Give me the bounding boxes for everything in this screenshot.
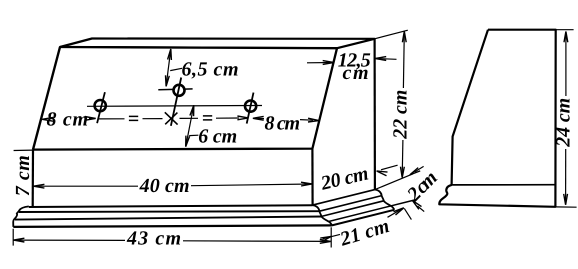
svg-text:22 cm: 22 cm (390, 90, 412, 140)
leader 6 cm (189, 134, 198, 136)
svg-text:43 cm: 43 cm (126, 228, 181, 250)
back moulding ogee profile (375, 190, 394, 210)
svg-text:8 cm: 8 cm (47, 109, 89, 131)
left moulding ogee profile (13, 206, 29, 227)
extension line top for 22 cm (375, 30, 408, 39)
svg-text:=: = (202, 108, 213, 130)
svg-text:6,5 cm: 6,5 cm (182, 59, 239, 81)
extension line for 7 cm (14, 149, 33, 151)
hole phi right (245, 101, 256, 112)
dimension 20 cm (381, 165, 398, 170)
dimension 2 cm arrows (415, 166, 424, 172)
back-right vertical edge (374, 39, 376, 190)
right front moulding ogee profile (313, 205, 332, 225)
side view outline (439, 30, 555, 207)
svg-text:cm: cm (343, 62, 369, 84)
dimension 8 cm left (42, 117, 53, 121)
leader 6,5 cm (170, 68, 182, 70)
front slanted face of block (33, 47, 337, 150)
svg-text:40 cm: 40 cm (139, 175, 190, 197)
dimension 22 cm (402, 31, 405, 88)
moulding ridge line 2 (19, 210, 320, 213)
hole phi left (95, 100, 106, 111)
oblique ridge connector B (322, 201, 384, 217)
dimension 24 cm (565, 32, 567, 96)
svg-text:=: = (128, 108, 139, 130)
moulding top oblique edge (313, 190, 375, 206)
dimension 6 cm line (186, 105, 194, 146)
top face of block (60, 39, 375, 49)
slab top oblique edge extended for 2cm arrow (329, 199, 417, 221)
moulding ridge line 3 (15, 217, 322, 220)
dimension 12,5 cm (307, 62, 334, 64)
dimension 6,5 cm line (166, 49, 171, 86)
hole axis line (87, 105, 262, 108)
dimension 21 cm (323, 234, 340, 238)
dimension 8 cm right (254, 117, 265, 119)
oblique ridge connector A (319, 196, 381, 212)
extension tick right of 21 cm (404, 208, 411, 219)
extension lines for 43 cm (12, 229, 14, 246)
band bottom / moulding top front edge (29, 205, 313, 207)
extension of top edge (556, 29, 574, 31)
band front-left vertical edge (32, 150, 34, 207)
svg-text:24 cm: 24 cm (553, 98, 575, 148)
band front-right vertical edge (311, 149, 313, 206)
svg-text:7 cm: 7 cm (12, 155, 34, 196)
extension of bottom edge (555, 206, 576, 208)
dimension 40 cm (33, 185, 138, 187)
left edge of slant face (33, 47, 60, 150)
dimension 43 cm (14, 239, 125, 241)
bottom slab bottom edge (13, 225, 332, 227)
side view joint line (452, 184, 555, 186)
center mark X (165, 112, 178, 124)
hole spacing line with equal marks (98, 118, 125, 120)
slab bottom-right oblique edge (332, 210, 394, 226)
svg-text:8 cm: 8 cm (265, 113, 301, 135)
hole phi middle (upper) (174, 85, 185, 96)
extension line for 22cm (bent past corner) (375, 174, 413, 190)
middle hole side ticks (158, 88, 173, 90)
